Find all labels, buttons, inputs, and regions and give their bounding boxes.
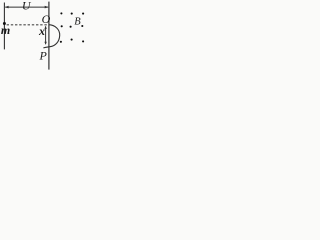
voltage arrow left head xyxy=(5,6,9,9)
field dot r1c3 xyxy=(82,13,84,15)
background xyxy=(0,0,88,70)
field dot r2c2 xyxy=(70,26,72,28)
field dot r1c2 xyxy=(71,13,73,15)
left plate xyxy=(3,3,5,50)
voltage arrow U shaft xyxy=(5,6,48,8)
field dot r1c1 xyxy=(60,12,62,14)
x dimension up head xyxy=(44,26,46,29)
voltage arrow right head xyxy=(45,6,49,9)
field dot r2c1 xyxy=(61,25,63,27)
svg-text:P: P xyxy=(39,48,48,62)
svg-text:B: B xyxy=(74,17,81,28)
field dot r3c2 xyxy=(71,39,73,41)
x dimension down head xyxy=(44,42,46,45)
dashed beam axis xyxy=(7,24,48,26)
svg-text:U: U xyxy=(22,0,32,13)
field dot r3c3 xyxy=(82,40,84,42)
particle source dot xyxy=(3,22,6,25)
field dot r2c3 xyxy=(81,25,83,27)
field dot r3c1 xyxy=(60,41,62,43)
svg-text:x: x xyxy=(38,24,45,38)
x dimension shaft xyxy=(45,26,47,43)
right plate xyxy=(48,2,50,70)
semicircular trajectory xyxy=(43,25,59,48)
